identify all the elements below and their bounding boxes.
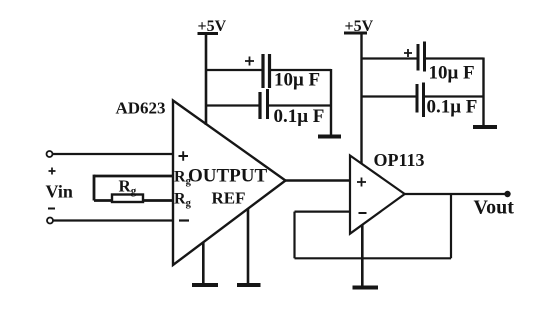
capacitor C3 left plate [417, 44, 420, 71]
wire rail to C4 [362, 95, 416, 97]
wire OP113 output to Vout [405, 193, 506, 195]
wire feedback right vertical [450, 194, 452, 258]
capacitor C1 polarity + [245, 57, 254, 66]
svg-text:REF: REF [212, 189, 246, 208]
wire rail to C2 [206, 104, 259, 106]
wire C3 to right vertical [425, 57, 484, 59]
node Vin- terminal [47, 218, 53, 224]
label Vin polarity - [48, 208, 55, 210]
ground under left caps [318, 135, 341, 139]
node Vout terminal dot [504, 191, 510, 197]
wire rail to C1 [206, 69, 262, 71]
pin - of AD623 [179, 219, 189, 221]
capacitor C1 left plate [261, 54, 264, 88]
ground under right caps [473, 125, 497, 129]
svg-text:10μ F: 10μ F [429, 63, 475, 84]
svg-text:0.1μ F: 0.1μ F [274, 106, 325, 127]
wire Rg loop bottom left [94, 199, 112, 202]
capacitor C2 left plate [258, 92, 261, 119]
wire feedback left vertical [293, 212, 295, 259]
wire left +5V rail [205, 34, 208, 126]
capacitor C2 right plate [266, 89, 269, 119]
wire Rg loop left [93, 175, 96, 201]
svg-text:Rg: Rg [119, 177, 137, 198]
wire C1 to right vertical [270, 69, 332, 71]
power rail bar left [198, 32, 219, 35]
ground under AD623 [192, 283, 218, 287]
svg-text:AD623: AD623 [116, 99, 166, 118]
svg-text:OP113: OP113 [374, 150, 425, 170]
wire rail to C3 [362, 57, 417, 59]
wire feedback bottom [295, 257, 452, 259]
wire Vin- to AD623 [53, 219, 173, 221]
svg-text:0.1μ F: 0.1μ F [427, 97, 478, 118]
wire Vin+ to AD623 [53, 153, 174, 155]
wire right +5V rail [360, 33, 362, 164]
wire Rg loop top [94, 175, 173, 178]
wire AD623 V- pin down [202, 243, 205, 286]
pin + of OP113 [357, 178, 366, 187]
capacitor C1 right plate [268, 54, 271, 88]
pin - of OP113 [359, 212, 367, 214]
node Vin+ terminal [47, 151, 53, 157]
wire C2 to right vertical [268, 104, 332, 106]
svg-text:10μ F: 10μ F [274, 70, 320, 91]
capacitor C3 polarity + [404, 49, 412, 57]
svg-text:OUTPUT: OUTPUT [188, 166, 268, 187]
ground under OP113 [353, 286, 379, 290]
capacitor C4 right plate [422, 83, 425, 118]
svg-text:Vout: Vout [474, 197, 515, 219]
svg-text:Vin: Vin [46, 182, 73, 202]
wire REF pin down [247, 209, 250, 285]
wire AD623 output to OP113 [286, 179, 351, 181]
wire Rg loop bottom right [143, 199, 173, 202]
svg-text:Rg: Rg [174, 191, 192, 210]
pin + of AD623 [179, 151, 189, 161]
wire OP113 inverting input left [295, 211, 351, 213]
ground under REF [237, 283, 261, 287]
resistor Rg [112, 195, 143, 203]
capacitor C3 right plate [423, 42, 426, 72]
power rail bar right [344, 32, 367, 35]
op-amp U1 AD623 triangle [173, 101, 286, 266]
wire C4 to right vertical [424, 95, 484, 97]
op-amp U2 OP113 triangle [350, 156, 405, 234]
label Vin polarity + [49, 168, 56, 175]
wire OP113 V- down to ground [361, 225, 364, 288]
wire caps down to ground left [330, 69, 332, 136]
wire right caps down to ground [482, 58, 484, 127]
capacitor C4 left plate [416, 84, 419, 113]
